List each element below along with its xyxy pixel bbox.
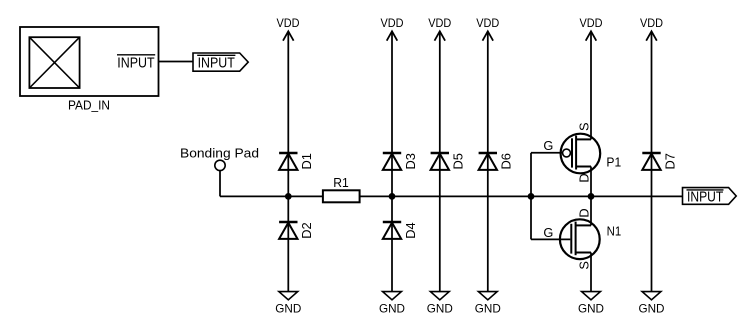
svg-text:VDD: VDD: [428, 16, 451, 30]
svg-text:D: D: [577, 173, 592, 182]
svg-text:INPUT: INPUT: [117, 56, 154, 72]
wire rail D7: [651, 31, 653, 291]
transistor P1: [561, 134, 601, 174]
symbol PAD_IN: [20, 27, 159, 96]
svg-text:VDD: VDD: [381, 16, 404, 30]
svg-text:VDD: VDD: [277, 16, 300, 30]
junction at D1 rail: [285, 193, 292, 200]
resistor R1: [323, 190, 360, 202]
power VDD rail P1 source: [580, 16, 603, 41]
ground GND N1 source: [578, 292, 604, 316]
wire rail D6: [487, 31, 489, 291]
junction at drain node: [588, 193, 595, 200]
wire output node to N1 drain: [590, 196, 592, 225]
net tag INPUT (left): [193, 53, 248, 71]
ground GND rail D3: [379, 292, 405, 316]
wire PAD_IN output to tag: [159, 61, 194, 63]
ground GND rail D6: [475, 292, 501, 316]
wire main net: [220, 195, 683, 197]
wire rail D3/D4: [391, 31, 393, 291]
svg-text:D6: D6: [499, 153, 514, 169]
svg-text:D5: D5: [451, 153, 466, 169]
wire gate vertical: [530, 153, 532, 240]
wire VDD to P1 source: [590, 31, 592, 139]
svg-text:D7: D7: [662, 153, 677, 169]
svg-text:D4: D4: [403, 222, 418, 238]
ground GND rail D7: [639, 292, 665, 316]
wire P1 gate: [531, 152, 563, 154]
power VDD rail D1: [277, 16, 300, 41]
power VDD rail D3: [381, 16, 404, 41]
svg-text:INPUT: INPUT: [687, 189, 723, 205]
wire N1 gate: [531, 238, 570, 240]
wire rail D5: [439, 31, 441, 291]
wire rail D1/D2: [287, 31, 289, 291]
svg-text:VDD: VDD: [476, 16, 499, 30]
junction at gate line: [528, 193, 535, 200]
svg-text:N1: N1: [607, 224, 622, 239]
svg-text:GND: GND: [275, 301, 301, 315]
net tag INPUT (right): [683, 188, 737, 206]
svg-text:Bonding Pad: Bonding Pad: [180, 145, 259, 160]
wire bonding pad drop: [219, 171, 221, 197]
wire N1 source to GND: [590, 253, 592, 292]
svg-text:GND: GND: [475, 301, 501, 315]
svg-text:GND: GND: [578, 301, 604, 315]
svg-text:GND: GND: [639, 301, 665, 315]
svg-text:D: D: [577, 208, 592, 217]
svg-text:VDD: VDD: [640, 16, 663, 30]
svg-text:R1: R1: [333, 175, 349, 190]
diode D3: [383, 153, 401, 170]
svg-text:S: S: [577, 122, 592, 131]
pin name INPUT of PAD_IN: [117, 55, 155, 72]
power VDD rail D7: [640, 16, 663, 41]
svg-text:D3: D3: [403, 153, 418, 169]
svg-text:GND: GND: [427, 301, 453, 315]
diode D2: [279, 222, 297, 239]
diode D5: [431, 153, 449, 170]
ground GND rail D5: [427, 292, 453, 316]
wire P1 drain to output node: [590, 167, 592, 197]
power VDD rail D5: [428, 16, 451, 41]
svg-text:D1: D1: [299, 153, 314, 169]
junction at D3 rail: [389, 193, 396, 200]
diode D1: [279, 153, 297, 170]
transistor N1: [560, 219, 600, 259]
svg-text:G: G: [543, 225, 553, 240]
power VDD rail D6: [476, 16, 499, 41]
bonding pad terminal: [215, 160, 225, 170]
svg-text:VDD: VDD: [580, 16, 603, 30]
svg-text:S: S: [577, 261, 592, 270]
svg-text:D2: D2: [299, 222, 314, 238]
diode D4: [383, 222, 401, 239]
svg-text:G: G: [543, 138, 553, 153]
ground GND rail D1: [275, 292, 301, 316]
diode D7: [642, 153, 660, 170]
diode D6: [479, 153, 497, 170]
svg-text:P1: P1: [606, 155, 621, 170]
svg-text:PAD_IN: PAD_IN: [68, 98, 110, 113]
svg-text:INPUT: INPUT: [198, 55, 235, 71]
svg-text:GND: GND: [379, 301, 405, 315]
